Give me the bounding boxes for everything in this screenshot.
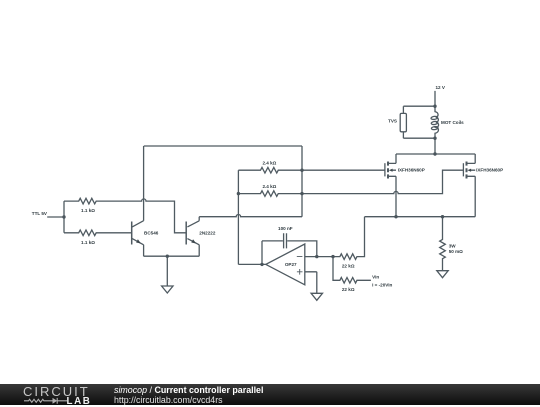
svg-text:OP27: OP27 — [285, 262, 297, 267]
svg-text:TTL 5V: TTL 5V — [32, 211, 48, 216]
svg-text:22 kΩ: 22 kΩ — [342, 287, 355, 292]
svg-text:Vin: Vin — [372, 275, 379, 280]
svg-text:50 mΩ: 50 mΩ — [449, 249, 463, 254]
svg-text:1.1 kΩ: 1.1 kΩ — [81, 208, 95, 213]
svg-text:TVS: TVS — [388, 118, 397, 123]
svg-text:MOT Coils: MOT Coils — [441, 120, 464, 125]
svg-text:100 nF: 100 nF — [278, 226, 293, 231]
svg-text:3W: 3W — [449, 243, 457, 248]
svg-text:2N2222: 2N2222 — [199, 231, 216, 236]
svg-text:12 V: 12 V — [435, 85, 445, 90]
svg-text:22 kΩ: 22 kΩ — [342, 263, 355, 268]
svg-text:1.1 kΩ: 1.1 kΩ — [81, 240, 95, 245]
svg-text:I = -20Vin: I = -20Vin — [372, 282, 392, 287]
svg-text:BC546: BC546 — [144, 231, 159, 236]
svg-text:IXFH36N60P: IXFH36N60P — [398, 168, 425, 173]
svg-text:IXFH36N60P: IXFH36N60P — [476, 168, 503, 173]
svg-text:2.4 kΩ: 2.4 kΩ — [262, 184, 276, 189]
svg-text:2.4 kΩ: 2.4 kΩ — [262, 161, 276, 166]
